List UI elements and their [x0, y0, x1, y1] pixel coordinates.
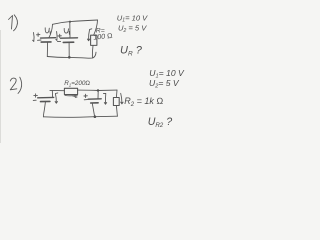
plus sign of U2: [58, 34, 61, 37]
left battery long plate: [38, 96, 54, 98]
wire: circuit2 top-left from battery to R1: [50, 89, 65, 91]
wire: drop into middle battery: [97, 91, 99, 99]
label 2): [10, 77, 21, 93]
resistor R1 body: [64, 88, 77, 94]
wire: circuit1 right drop to resistor R: [94, 20, 98, 35]
plus sign of U1: [36, 33, 40, 36]
wire: circuit2 bottom: [43, 116, 117, 117]
left battery short plate: [41, 100, 50, 102]
svg-text:R1=200Ω: R1=200Ω: [64, 80, 90, 87]
wire: R1 to right corner: [78, 89, 117, 91]
minus sign of middle battery: [84, 99, 87, 101]
wire: drop into left battery: [51, 91, 53, 97]
svg-text:100 Ω: 100 Ω: [93, 32, 113, 42]
wire: circuit1 top: [53, 20, 98, 24]
junction dot bottom middle: [94, 115, 97, 118]
wire: below R2 to bottom: [116, 106, 117, 117]
junction dot top of middle battery: [97, 89, 99, 91]
voltage arrow at R: [87, 29, 91, 41]
junction dot bottom of U2 branch: [68, 56, 71, 59]
minus sign of U1: [38, 39, 42, 41]
wire: circuit1 bottom: [47, 52, 96, 58]
label 1): [9, 15, 18, 31]
plus sign of middle battery: [84, 94, 88, 97]
junction dot top of U2 branch: [69, 21, 71, 23]
wire: below left battery to bottom: [43, 102, 45, 117]
current arrow under R1: [73, 96, 78, 98]
svg-text:U1= 10 V: U1= 10 V: [117, 13, 148, 23]
scan edge shading: [0, 30, 1, 143]
wire: below U1 to bottom: [46, 43, 48, 57]
current arrow I1: [33, 33, 34, 42]
middle battery long plate: [88, 98, 101, 100]
current arrow left battery: [55, 93, 58, 103]
middle battery short plate: [91, 102, 98, 104]
label U2: [64, 29, 69, 35]
svg-text:U2= 5 V: U2= 5 V: [149, 78, 180, 90]
voltage arrow at R2: [121, 93, 123, 104]
battery U1 short plate: [41, 41, 51, 43]
battery U2 short plate: [63, 41, 73, 43]
wire: circuit1 left drop to battery U1: [49, 25, 53, 38]
current arrow mid-right: [103, 93, 106, 104]
label U1: [45, 28, 50, 34]
wire: below R to bottom: [91, 46, 94, 58]
battery U2 long plate: [61, 37, 78, 39]
wire: right corner down to R2: [115, 90, 118, 97]
resistor R2 body: [113, 98, 119, 106]
battery U1 long plate: [41, 37, 56, 39]
plus sign of left battery: [34, 94, 38, 97]
wire: below U2 to bottom: [68, 43, 70, 57]
minus sign of left battery: [33, 99, 36, 101]
current arrow I2: [56, 32, 57, 41]
resistor R body: [91, 35, 97, 45]
svg-text:U2 = 5 V: U2 = 5 V: [118, 23, 147, 33]
minus sign of U2: [57, 40, 60, 42]
svg-text:R2 = 1k Ω: R2 = 1k Ω: [124, 96, 163, 108]
resistor R1 bottom restroke: [65, 94, 77, 97]
wire: below middle battery to bottom: [92, 104, 94, 117]
wire: top drop to battery U2: [69, 22, 71, 38]
